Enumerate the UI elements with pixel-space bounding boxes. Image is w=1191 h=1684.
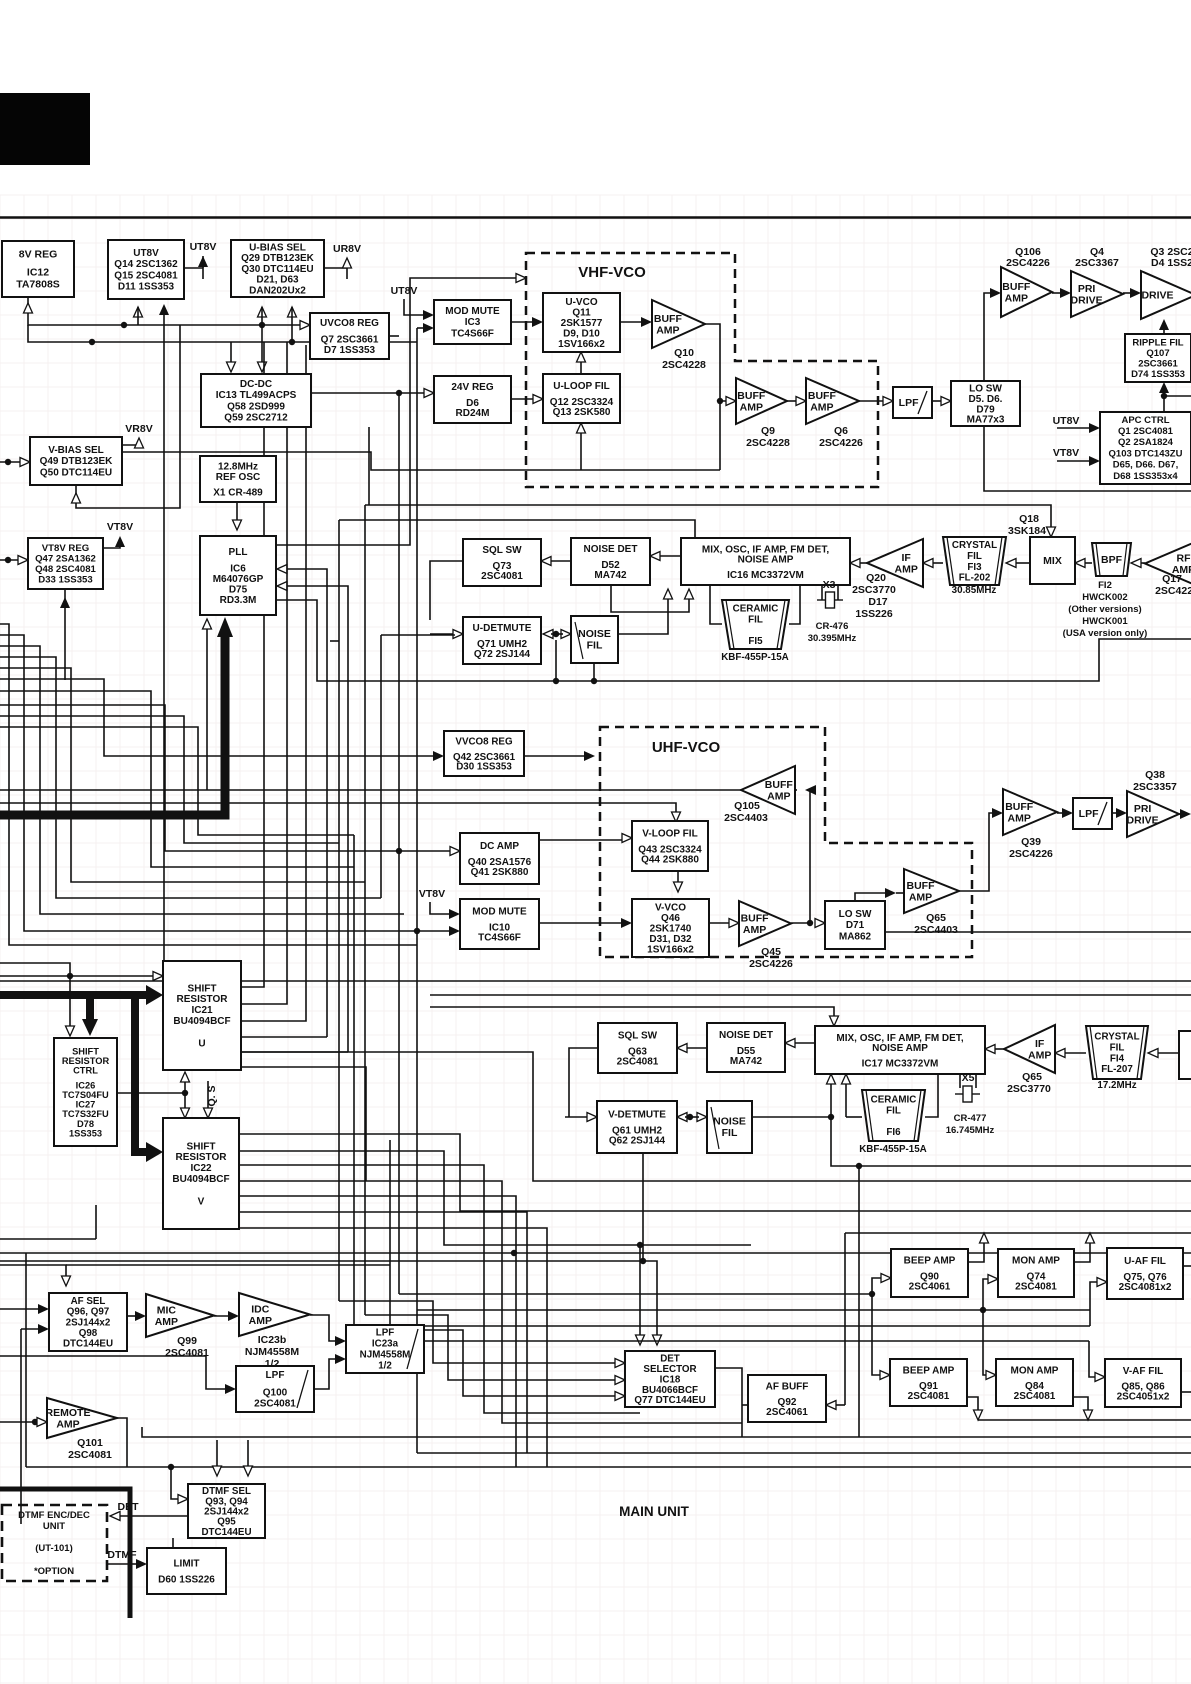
svg-text:2SC4226: 2SC4226 (819, 437, 863, 449)
wire mesh net2 (0, 635, 417, 931)
svg-text:2SC4226: 2SC4226 (1009, 848, 1053, 860)
page corner black block (0, 93, 90, 165)
shift register control IC26 IC27 (54, 1038, 117, 1146)
wire Q6 to LPF (859, 400, 885, 402)
filter CERAMIC FIL FI5 (721, 600, 789, 663)
amplifier BUFF AMP Q106 (1001, 267, 1052, 317)
svg-text:FIL: FIL (967, 551, 982, 562)
wire IFAMP2 to IC17 (993, 1048, 1004, 1050)
svg-text:UHF-VCO: UHF-VCO (652, 739, 721, 756)
svg-text:D30 1SS353: D30 1SS353 (456, 762, 512, 773)
wire dtmf top2 (247, 1440, 249, 1468)
svg-text:2SJ144x2: 2SJ144x2 (66, 1317, 111, 1328)
svg-text:Q2 2SA1824: Q2 2SA1824 (1118, 437, 1174, 448)
arrow VAF in (1095, 1373, 1105, 1382)
svg-text:LPF: LPF (376, 1328, 395, 1339)
svg-text:AMP: AMP (249, 1315, 272, 1327)
wire Q4 to Q3 (1123, 292, 1133, 294)
wire y1265 right (66, 1264, 390, 1266)
svg-text:2SC3367: 2SC3367 (1075, 257, 1119, 269)
wire ic10 in2 (417, 930, 452, 932)
wire IC21 riser 3 (241, 345, 306, 1021)
amplifier REMOTE AMP Q101 (46, 1398, 117, 1461)
svg-text:PLL: PLL (229, 547, 248, 558)
svg-text:Q29 DTB123EK: Q29 DTB123EK (241, 253, 315, 264)
arrow UVCO8 in (300, 321, 310, 330)
arrow VVCO8 in (433, 751, 444, 761)
svg-text:Q41 2SK880: Q41 2SK880 (471, 867, 529, 878)
wire REMOTE in (0, 1421, 39, 1423)
arrow Q63 in (677, 1044, 687, 1053)
svg-text:1SS353: 1SS353 (69, 1128, 102, 1138)
svg-text:2SK1577: 2SK1577 (561, 318, 603, 329)
arrow pll bottom thin (203, 619, 212, 629)
svg-text:AMP: AMP (56, 1418, 79, 1430)
amplifier BUFF AMP Q45 (739, 901, 793, 970)
svg-text:MA77x3: MA77x3 (967, 415, 1005, 426)
arrow MON74 in (988, 1275, 998, 1284)
arrow UR8V up (343, 258, 352, 268)
svg-text:DAN202Ux2: DAN202Ux2 (249, 286, 306, 297)
arrow IC16 b2 (685, 589, 694, 599)
oscillator 12.8MHz REF OSC X1 (200, 456, 276, 502)
svg-text:D9, D10: D9, D10 (563, 329, 600, 340)
arrow VBIAS bottom (72, 493, 81, 503)
svg-text:LO SW: LO SW (969, 384, 1002, 395)
wire RF to BPF (1139, 562, 1145, 564)
svg-text:FIL: FIL (722, 1127, 738, 1139)
svg-text:CTRL: CTRL (73, 1066, 98, 1076)
svg-text:BUFF: BUFF (1005, 801, 1034, 813)
arrow BEEP90 in (881, 1274, 891, 1283)
wire UDET link (551, 633, 563, 635)
svg-text:D17: D17 (868, 596, 887, 608)
svg-text:2SC4061: 2SC4061 (909, 1282, 951, 1293)
svg-text:FIL: FIL (886, 1106, 901, 1117)
regulator UVCO8 REG Q7 (310, 313, 389, 359)
svg-text:IC18: IC18 (660, 1374, 681, 1385)
svg-text:Q38: Q38 (1145, 769, 1165, 781)
svg-text:KBF-455P-15A: KBF-455P-15A (721, 652, 789, 663)
mute MOD MUTE IC3 (434, 300, 511, 344)
svg-text:2SC4081: 2SC4081 (68, 1449, 112, 1461)
arrow NFIL2 in (697, 1113, 707, 1122)
wire y1437 (142, 1427, 1191, 1437)
wire vt8v apc (1057, 460, 1091, 462)
wire VVCO8 out (524, 755, 587, 757)
junction x859 (856, 1163, 862, 1169)
wire mon74 up (1074, 1241, 1090, 1262)
wire Q10 out (705, 324, 728, 401)
junction rail A x124 (121, 322, 127, 328)
svg-text:LPF: LPF (1079, 808, 1099, 820)
svg-text:Q99: Q99 (177, 1335, 197, 1347)
svg-text:DTMF: DTMF (107, 1549, 137, 1561)
if-system IC17 MC3372VM (815, 1026, 985, 1074)
wire 24V to U-LOOP (511, 398, 534, 400)
wire mesh net10 (0, 727, 354, 835)
svg-text:MA742: MA742 (730, 1056, 763, 1067)
svg-text:Q62 2SJ144: Q62 2SJ144 (609, 1136, 666, 1147)
wire uaf in (1090, 1282, 1099, 1326)
amplifier IF AMP Q65b (1004, 1025, 1055, 1073)
shift register IC22 BU4094BCF (163, 1118, 239, 1229)
wire UT8V out (184, 268, 203, 279)
wire y1166 right (859, 1165, 1191, 1167)
svg-text:D79: D79 (976, 404, 995, 415)
svg-text:Q47 2SA1362: Q47 2SA1362 (35, 554, 96, 565)
svg-text:BUFF: BUFF (654, 313, 683, 325)
wire vaf feed (390, 1340, 1089, 1342)
wire afbuff in (834, 1404, 845, 1406)
svg-text:Q49 DTB123EK: Q49 DTB123EK (40, 456, 114, 467)
svg-text:FL-207: FL-207 (1101, 1064, 1133, 1075)
arrow DCDC in1 (227, 362, 236, 372)
wire DCAMP out (539, 839, 624, 841)
svg-text:IC26: IC26 (76, 1080, 96, 1090)
arrow VDET in (587, 1113, 597, 1122)
wire UT8V stub (202, 256, 204, 268)
svg-text:30.395MHz: 30.395MHz (808, 633, 857, 644)
svg-text:U-LOOP FIL: U-LOOP FIL (553, 381, 609, 392)
wire vaf out (1181, 1391, 1191, 1393)
svg-text:2SC4081: 2SC4081 (165, 1347, 209, 1359)
svg-text:2SC4081: 2SC4081 (254, 1398, 296, 1409)
amplifier MON AMP Q84 (996, 1359, 1073, 1406)
wire IC10 to VVCO (539, 922, 623, 924)
svg-text:TC4S66F: TC4S66F (451, 328, 494, 339)
arrow UDET in (453, 630, 463, 639)
wire LPFQ100 to LPF23a (314, 1359, 338, 1389)
svg-text:Q77 DTC144EU: Q77 DTC144EU (634, 1395, 705, 1406)
thick data bus to PLL (0, 632, 225, 815)
svg-text:Q7 2SC3661: Q7 2SC3661 (321, 334, 379, 345)
wire DCDC v1 (230, 342, 232, 368)
filter CRYSTAL FIL FI4 (1086, 1026, 1148, 1091)
wire ut8v apc (1057, 427, 1091, 429)
svg-text:AMP: AMP (740, 401, 763, 413)
svg-text:V-BIAS SEL: V-BIAS SEL (48, 445, 104, 456)
arrow UT8V box in2 (159, 304, 169, 315)
arrow DETSEL in3 (615, 1392, 625, 1401)
wire IC22 out 3 (239, 1181, 742, 1423)
amplifier IF AMP Q20 (867, 539, 923, 587)
svg-text:IF: IF (1035, 1038, 1045, 1050)
svg-text:DRIVE: DRIVE (1141, 290, 1173, 302)
wire VR8V out (122, 444, 139, 446)
regulator 8V REG IC12 (2, 241, 74, 297)
arrow VT8V in (18, 556, 28, 565)
arrow apc in1 (1089, 423, 1100, 433)
wire qs down2 (207, 1081, 209, 1110)
wire pll bottom thin (206, 627, 208, 790)
svg-text:MOD MUTE: MOD MUTE (445, 306, 500, 317)
svg-text:AMP: AMP (656, 324, 679, 336)
arrow U-VCO bottom (577, 352, 586, 362)
filter LPF IC23a (346, 1325, 424, 1373)
wire detsel top1 (639, 1245, 641, 1337)
svg-text:MIX: MIX (1043, 555, 1062, 567)
switch SQL SW Q63 (598, 1023, 677, 1073)
driver DRIVE Q3 (1141, 271, 1191, 319)
wire X5 s2 (975, 1074, 977, 1088)
svg-text:V-VCO: V-VCO (655, 902, 686, 913)
UHF-VCO dashed boundary (600, 727, 972, 957)
svg-text:16.745MHz: 16.745MHz (946, 1125, 995, 1136)
arrow IC22 top2 (204, 1108, 213, 1118)
wire AFSEL in1 (0, 1308, 41, 1310)
arrow IC16 in (850, 559, 860, 568)
wire mesh net5 (0, 668, 365, 882)
wire band y1007 (430, 1007, 834, 1018)
svg-text:FI6: FI6 (886, 1127, 901, 1138)
svg-text:REMOTE: REMOTE (46, 1407, 91, 1419)
svg-text:UT8V: UT8V (391, 285, 418, 297)
svg-text:Q58 2SD999: Q58 2SD999 (227, 401, 285, 412)
svg-text:Q20: Q20 (866, 572, 886, 584)
svg-text:IC22: IC22 (190, 1163, 212, 1174)
arrow UT8V box in1 (134, 307, 143, 317)
wire qs up (184, 1080, 186, 1093)
arrow DTMF top1 (213, 1466, 222, 1476)
arrow DETSEL in2 (615, 1376, 625, 1385)
amplifier MIC AMP Q99 (146, 1294, 214, 1359)
svg-text:VT8V: VT8V (1053, 447, 1079, 459)
thick unit border (0, 1489, 130, 1618)
wire pll in2 (284, 586, 348, 1052)
wire AFSEL to MIC (127, 1315, 138, 1317)
arrow REMOTE in (37, 1418, 47, 1427)
arrow Q105 in (805, 785, 816, 795)
wire IC22 out 6 (239, 1228, 547, 1467)
junction VDET (687, 1114, 693, 1120)
junction 24V (396, 390, 402, 396)
svg-text:PRI: PRI (1078, 283, 1096, 295)
junction y1467 (168, 1464, 174, 1470)
wire LOSW2 to Q65 (855, 893, 888, 901)
svg-text:Q10: Q10 (674, 347, 694, 359)
wire detsel in1 (339, 1301, 617, 1363)
svg-text:BUFF: BUFF (808, 390, 837, 402)
amplifier BUFF AMP Q105 (741, 766, 795, 814)
svg-text:U-VCO: U-VCO (565, 297, 597, 308)
svg-text:IC23a: IC23a (372, 1339, 399, 1350)
svg-text:2SC4081x2: 2SC4081x2 (1119, 1282, 1172, 1293)
svg-text:IC21: IC21 (191, 1005, 213, 1016)
arrow IC17 b1 (827, 1074, 836, 1084)
filter LPF Q100 (236, 1366, 314, 1412)
wire IC22 out 5 (239, 1212, 527, 1453)
svg-text:2SC4403: 2SC4403 (914, 924, 958, 936)
junction y681 b (591, 678, 597, 684)
crystal X3 CR-476 (817, 592, 843, 608)
svg-text:HWCK002: HWCK002 (1082, 592, 1127, 603)
svg-text:LIMIT: LIMIT (173, 1559, 199, 1570)
svg-text:2SC3770: 2SC3770 (1007, 1083, 1051, 1095)
wire mon84 down (1073, 1397, 1088, 1412)
wire beep90 up (968, 1241, 984, 1262)
svg-text:U: U (198, 1038, 205, 1049)
wire Q63 out (569, 1048, 598, 1117)
arrow UDET out (543, 630, 553, 639)
svg-text:Q11: Q11 (572, 307, 591, 318)
arrow U-LOOP in (533, 395, 543, 404)
DTMF ENC/DEC unit dashed box (2, 1505, 107, 1581)
wire VT8V in (0, 559, 20, 561)
svg-text:U-AF FIL: U-AF FIL (1124, 1256, 1166, 1267)
wire dtmf feed (171, 1467, 180, 1499)
wire FI5 right (789, 585, 800, 624)
arrow Q65 in (885, 888, 896, 898)
wire DRIVE out (1186, 293, 1191, 295)
selector DTMF SEL Q93 (188, 1484, 265, 1538)
if-system IC16 MC3372VM (681, 538, 850, 585)
svg-text:2SC4081: 2SC4081 (481, 571, 523, 582)
arrow y1233 up1 (980, 1233, 989, 1243)
selector AF SEL Q96 (49, 1293, 127, 1351)
svg-text:D11 1SS353: D11 1SS353 (118, 282, 175, 293)
wire DCDC to 24VREG (311, 392, 426, 394)
junction thin feed (67, 973, 73, 979)
svg-text:BU4066BCF: BU4066BCF (642, 1385, 698, 1396)
filter RIPPLE FIL Q107 (1125, 334, 1191, 382)
svg-text:2SC4228: 2SC4228 (662, 359, 706, 371)
svg-text:LO SW: LO SW (839, 909, 872, 920)
svg-text:X1 CR-489: X1 CR-489 (213, 488, 263, 499)
wire LOSW2 right (885, 931, 1191, 933)
arrow MON84 in (986, 1371, 996, 1380)
arrow BEEP91 in (880, 1371, 890, 1380)
arrow IFAMP in (923, 559, 933, 568)
wire NFIL1 to IC16 (618, 597, 668, 634)
wire q65 stub (896, 892, 904, 894)
junction VBIAS (5, 459, 11, 465)
svg-text:FI2: FI2 (1098, 580, 1112, 591)
wire IC21 riser 2 (241, 342, 287, 1004)
wire IC22 out 1 (239, 1151, 751, 1245)
svg-text:RESISTOR: RESISTOR (62, 1056, 110, 1066)
arrow FI4 in (1148, 1049, 1158, 1058)
arrow DETSEL in1 (615, 1359, 625, 1368)
svg-text:TC7S32FU: TC7S32FU (62, 1109, 109, 1119)
arrow pll r1 (277, 565, 287, 574)
arrow DTMF SEL in (178, 1495, 188, 1504)
svg-text:D71: D71 (846, 920, 865, 931)
svg-text:NJM4558M: NJM4558M (245, 1346, 300, 1358)
svg-text:UT8V: UT8V (133, 248, 159, 259)
wire U-DETMUTE feed (381, 634, 455, 636)
wire MIX to FI3 (1014, 562, 1030, 564)
svg-text:2SK1740: 2SK1740 (650, 924, 692, 935)
arrow y1420 dn2 (1084, 1410, 1093, 1420)
arrow IC21 in thin (153, 972, 163, 981)
wire FI4 to IFAMP2 (1063, 1052, 1086, 1054)
svg-text:Q. S: Q. S (206, 1085, 218, 1106)
filter BPF FI2 (1092, 543, 1131, 576)
svg-text:IC27: IC27 (76, 1100, 96, 1110)
svg-text:24V REG: 24V REG (451, 382, 493, 393)
filter U-AF FIL Q75 Q76 (1107, 1248, 1183, 1299)
svg-text:Q46: Q46 (661, 913, 680, 924)
svg-text:LPF: LPF (266, 1370, 285, 1381)
wire DET line (116, 1515, 188, 1517)
arrow MIX top (1047, 527, 1056, 537)
wire VT8V bottom (64, 589, 66, 605)
wire pll out right (276, 278, 518, 545)
svg-text:Q65: Q65 (1022, 1071, 1042, 1083)
arrow ripple bottom (1159, 382, 1169, 393)
arrow UT8V up (198, 256, 208, 267)
svg-text:MA862: MA862 (839, 931, 872, 942)
arrow DET out (110, 1512, 120, 1521)
svg-text:2SC4226: 2SC4226 (1006, 257, 1050, 269)
arrow V-VCO top (674, 882, 683, 892)
svg-text:IC23b: IC23b (258, 1334, 287, 1346)
svg-text:Q101: Q101 (77, 1437, 103, 1449)
amplifier MON AMP Q74 (998, 1249, 1074, 1297)
wire q105 up (809, 790, 811, 923)
regulator VT8V REG Q47 (28, 538, 103, 589)
arrow DETSEL top1 (636, 1335, 645, 1345)
arrow BPF in (1131, 559, 1141, 568)
arrow VR8V (135, 438, 144, 448)
wire thin IC21 feed2 (0, 975, 155, 977)
wire to LPF Q100 (0, 1356, 228, 1389)
arrow IDC in (228, 1311, 239, 1321)
wire x21 drop (20, 1329, 22, 1524)
svg-text:KBF-455P-15A: KBF-455P-15A (859, 1144, 927, 1155)
arrow MIX in r (1075, 559, 1085, 568)
crystal X5 CR-477 (955, 1086, 980, 1102)
svg-text:IDC: IDC (251, 1303, 270, 1315)
arrow IC3 in2 (423, 323, 434, 333)
svg-text:AMP: AMP (743, 924, 766, 936)
wire VT8V b drop (64, 605, 66, 680)
wire NFIL2 out (752, 1116, 831, 1118)
svg-text:2SC3770: 2SC3770 (852, 584, 896, 596)
wire MIC to IDC (214, 1315, 231, 1317)
wire X3 s2 (837, 585, 839, 600)
wire dtmf top1 (216, 1440, 218, 1468)
trunk x381 U-DETMUTE feed (380, 635, 382, 898)
svg-text:CERAMIC: CERAMIC (733, 604, 779, 615)
svg-text:SQL SW: SQL SW (482, 545, 522, 556)
arrow drive bottom (1159, 319, 1169, 330)
svg-text:3SK184: 3SK184 (1008, 525, 1046, 537)
svg-text:IC3: IC3 (465, 317, 481, 328)
mute V-DETMUTE Q61 Q62 (597, 1101, 677, 1153)
amplifier IDC AMP IC23b (239, 1293, 310, 1370)
svg-text:Q72 2SJ144: Q72 2SJ144 (474, 649, 531, 660)
arrow VT8V lbl (115, 536, 125, 547)
wire y1261 left (0, 1260, 643, 1262)
filter NOISE FIL v (707, 1101, 752, 1153)
arrow Q38 out (1180, 809, 1191, 819)
svg-text:1SS226: 1SS226 (855, 608, 893, 620)
amplifier BEEP AMP Q91 (890, 1359, 967, 1406)
arrow UAF in (1097, 1278, 1107, 1287)
wire LPF to LOSW (932, 400, 943, 402)
svg-text:Q30 DTC114EU: Q30 DTC114EU (241, 264, 313, 275)
junction mon (980, 1307, 986, 1313)
mute MOD MUTE IC10 (460, 899, 539, 949)
wire UVCO8 right link (389, 335, 399, 337)
svg-text:VR8V: VR8V (125, 423, 152, 435)
svg-text:MON AMP: MON AMP (1011, 1366, 1059, 1377)
wire VDET link (685, 1116, 699, 1118)
wire IC17 to D55 (793, 1042, 815, 1044)
svg-text:AMP: AMP (1005, 292, 1028, 304)
